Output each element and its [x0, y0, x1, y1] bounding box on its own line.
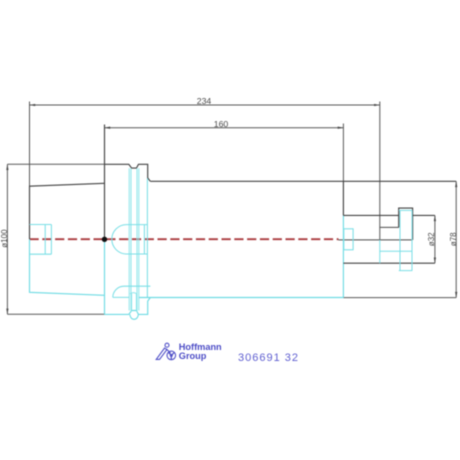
bore edge vertical (cyan): [146, 178, 148, 297]
svg-text:306691 32: 306691 32: [238, 352, 299, 364]
clamping ring (black outline): [399, 208, 413, 240]
collar neck arch cap (cyan): [130, 293, 137, 294]
cotter slot (cyan): [30, 225, 52, 255]
spigot dia32 outline (black): [343, 215, 435, 263]
ext 234 lower part (cyan): [379, 240, 381, 263]
svg-text:234: 234: [197, 96, 212, 106]
dimension 160: [105, 124, 344, 182]
bore rectangle at step face (cyan): [344, 229, 353, 250]
centerline solid segment right: [338, 239, 412, 241]
taper cone lower (cyan): [30, 239, 105, 295]
taper cone upper (black): [30, 183, 105, 239]
flange underside fillet (cyan): [113, 286, 151, 297]
cylinder top line (black): [150, 180, 456, 182]
step face at 160 (black upper / cyan lower): [342, 181, 344, 215]
shoulder mirror line (cyan): [380, 250, 412, 252]
dimension dia32: [434, 215, 436, 263]
underside line segment (cyan): [113, 296, 129, 298]
centerline: [30, 238, 339, 240]
dimension dia78: [343, 181, 456, 297]
svg-text:ø100: ø100: [0, 229, 9, 248]
dimension dia100: [7, 164, 104, 314]
logo mark: [156, 343, 175, 360]
dimension 234: [30, 102, 380, 240]
clamping ring lower (cyan): [399, 210, 413, 270]
flange slot bulge (cyan): [130, 314, 138, 319]
pilot bore D-shape (cyan): [112, 225, 147, 254]
svg-text:Group: Group: [179, 351, 207, 361]
cylinder bottom line (cyan): [139, 297, 344, 299]
collar groove hidden lines (cyan): [129, 168, 139, 312]
gauge point dot: [102, 237, 107, 242]
flange lower (cyan): [105, 239, 151, 314]
shoulder hidden line (black): [380, 226, 399, 228]
svg-text:ø32: ø32: [427, 232, 436, 246]
flange upper (black): [105, 125, 151, 240]
svg-text:160: 160: [214, 119, 229, 129]
svg-text:ø78: ø78: [449, 232, 458, 246]
